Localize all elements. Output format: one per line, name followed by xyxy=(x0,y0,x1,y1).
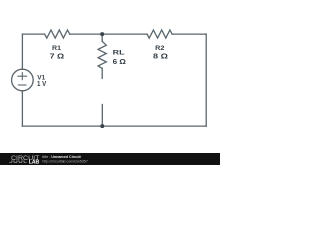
node B (bottom junction) xyxy=(100,124,104,128)
V1 minus sign xyxy=(18,84,26,86)
voltage source V1 xyxy=(12,69,34,91)
svg-text:6 Ω: 6 Ω xyxy=(113,57,126,66)
wire top-left segment xyxy=(22,33,44,35)
wire bottom xyxy=(22,125,206,127)
wire right side xyxy=(205,34,207,126)
logo waveform xyxy=(9,161,26,163)
wire top-right segment xyxy=(172,33,206,35)
resistor RL lead bottom xyxy=(101,68,103,78)
svg-text:title : Unnamed Circuit: title : Unnamed Circuit xyxy=(42,155,81,159)
wire left lower (V1 to bottom corner) xyxy=(21,91,23,126)
svg-text:7 Ω: 7 Ω xyxy=(50,52,65,61)
svg-text:LAB: LAB xyxy=(29,160,40,165)
V1 plus sign xyxy=(18,73,27,80)
resistor R1 xyxy=(45,30,70,38)
footer bar xyxy=(0,153,220,165)
resistor RL lead top xyxy=(101,34,103,41)
wire top-middle segment xyxy=(70,33,147,35)
svg-text:http://circuitlab.com/c/w5d57: http://circuitlab.com/c/w5d57 xyxy=(42,159,87,163)
resistor RL xyxy=(98,41,106,68)
node A (top junction) xyxy=(100,32,104,36)
wire RL branch lower xyxy=(101,105,103,127)
svg-text:1 V: 1 V xyxy=(37,79,46,88)
svg-text:8 Ω: 8 Ω xyxy=(153,52,168,61)
svg-text:RL: RL xyxy=(113,50,125,57)
resistor R2 xyxy=(147,30,172,38)
wire left upper (top corner to V1) xyxy=(21,34,23,69)
